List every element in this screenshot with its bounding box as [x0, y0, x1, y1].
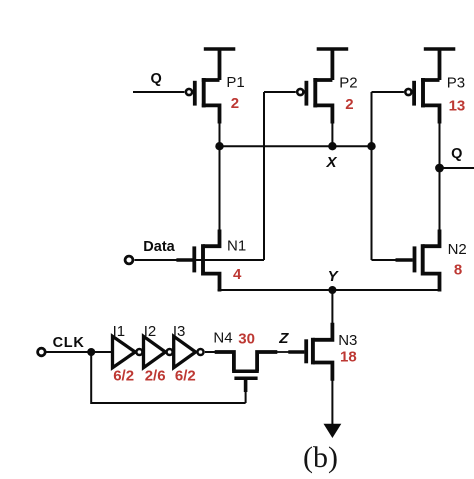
svg-text:I2: I2: [144, 323, 157, 340]
svg-text:13: 13: [449, 98, 466, 115]
svg-text:N1: N1: [227, 238, 246, 255]
svg-text:P1: P1: [226, 74, 244, 91]
svg-text:Q: Q: [151, 71, 162, 87]
svg-text:N2: N2: [448, 241, 467, 258]
svg-text:6/2: 6/2: [175, 368, 196, 385]
svg-text:N4: N4: [213, 330, 232, 347]
svg-text:(b): (b): [303, 441, 338, 474]
svg-text:I3: I3: [173, 323, 186, 340]
svg-text:2: 2: [345, 96, 353, 113]
svg-text:P3: P3: [447, 74, 465, 91]
svg-text:4: 4: [233, 266, 242, 283]
svg-text:I1: I1: [113, 323, 126, 340]
svg-text:CLK: CLK: [53, 335, 85, 351]
svg-text:18: 18: [340, 348, 357, 365]
svg-text:X: X: [326, 154, 338, 171]
svg-text:N3: N3: [338, 332, 357, 349]
svg-text:30: 30: [238, 331, 255, 348]
svg-text:Q: Q: [451, 146, 462, 162]
svg-text:Z: Z: [278, 330, 289, 347]
svg-text:6/2: 6/2: [113, 368, 134, 385]
svg-text:Data: Data: [143, 239, 175, 255]
svg-text:2: 2: [231, 95, 239, 112]
svg-text:2/6: 2/6: [145, 368, 166, 385]
svg-text:8: 8: [454, 262, 462, 279]
svg-text:P2: P2: [339, 74, 357, 91]
